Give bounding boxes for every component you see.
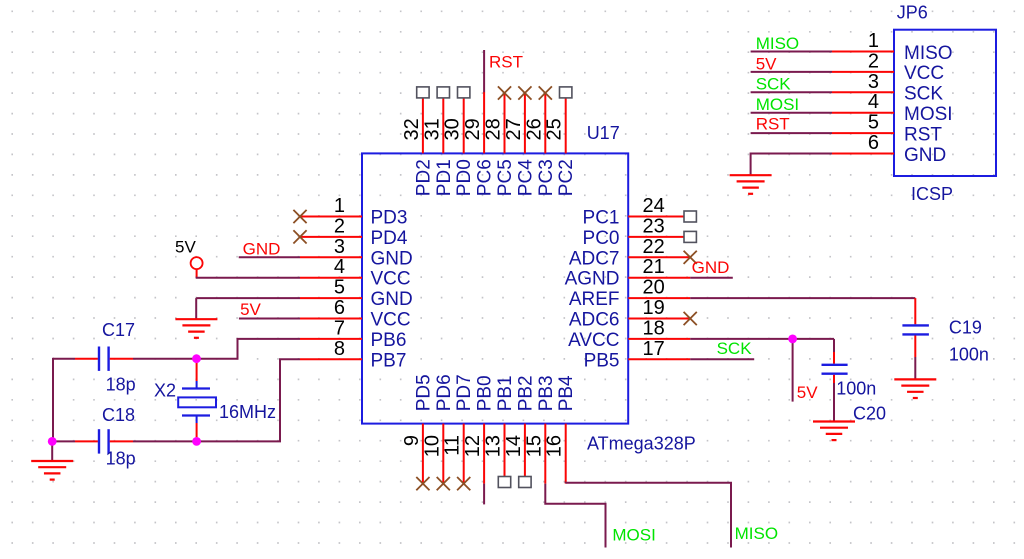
svg-text:PD1: PD1 [434, 159, 455, 196]
no-ERC X on pin 19 (ADC6) [684, 312, 697, 325]
no-ERC X on pin 11 (PD7) [457, 477, 470, 490]
svg-text:30: 30 [442, 118, 464, 140]
svg-text:100n: 100n [949, 345, 989, 365]
svg-text:32: 32 [401, 118, 423, 140]
pin 6 (VCC) left [300, 297, 411, 331]
svg-text:PD0: PD0 [454, 159, 475, 196]
svg-text:GND: GND [243, 240, 281, 259]
svg-text:RST: RST [756, 114, 790, 133]
svg-text:C19: C19 [949, 318, 982, 338]
svg-text:PD2: PD2 [413, 159, 434, 196]
svg-text:14: 14 [503, 435, 525, 457]
svg-text:9: 9 [401, 435, 423, 446]
wire: down to ground symbol [195, 298, 197, 319]
pin 28 (PC5) top [483, 92, 517, 196]
svg-text:5: 5 [868, 112, 879, 134]
svg-text:PD3: PD3 [371, 208, 408, 229]
pin 19 (ADC6) right [569, 297, 690, 331]
svg-text:25: 25 [544, 118, 566, 140]
svg-text:X2: X2 [154, 381, 176, 401]
svg-text:1: 1 [334, 195, 345, 217]
capacitor C19 [902, 325, 929, 379]
JP6 pin 5 (RST) [832, 112, 942, 146]
terminal square pin 30 (PD0) [458, 87, 470, 98]
IC U17 body (ATmega328P) [362, 153, 628, 423]
pin 23 (PC0) right [583, 215, 691, 249]
svg-text:GND: GND [371, 248, 413, 269]
svg-text:PB6: PB6 [371, 330, 407, 351]
wire: pin 5 (GND) to ground [196, 297, 300, 299]
wire: 5V stub down from junction [792, 339, 794, 402]
pin 8 (PB7) left [300, 338, 406, 372]
JP6 pin 4 (MOSI) [832, 91, 953, 125]
svg-text:PD5: PD5 [413, 374, 434, 411]
capacitor C18 [52, 429, 196, 453]
svg-text:15: 15 [523, 435, 545, 457]
svg-text:8: 8 [334, 338, 345, 360]
no-ERC X on pin 22 (ADC7) [684, 251, 697, 264]
pin 3 (GND) left [300, 236, 413, 269]
svg-text:10: 10 [421, 435, 443, 457]
svg-text:RST: RST [904, 124, 942, 145]
svg-text:MISO: MISO [735, 524, 778, 543]
no-ERC X on pin 2 (PD4) [293, 230, 306, 243]
svg-text:ADC6: ADC6 [569, 310, 620, 331]
svg-text:29: 29 [462, 118, 484, 140]
wire: GND stub at pin 21 (AGND) [690, 277, 733, 279]
terminal square pin 24 (PC1) [684, 211, 696, 222]
svg-text:PB4: PB4 [556, 375, 577, 411]
pin 29 (PC6) top [462, 92, 496, 196]
svg-text:PD4: PD4 [371, 228, 408, 249]
pin 17 (PB5) right [584, 338, 691, 372]
wire: stub down to left ground [51, 441, 53, 461]
svg-text:AREF: AREF [569, 289, 620, 310]
svg-text:PD7: PD7 [454, 374, 475, 411]
svg-text:PC0: PC0 [583, 228, 620, 249]
pin 27 (PC4) top [503, 92, 537, 196]
svg-text:17: 17 [643, 338, 665, 360]
pin 11 (PD7) bottom [442, 374, 476, 483]
no-ERC X on pin 1 (PD3) [293, 210, 306, 223]
svg-text:VCC: VCC [371, 269, 411, 290]
wire: AREF net pin 20 to C19 [690, 297, 915, 299]
svg-text:MOSI: MOSI [756, 95, 799, 114]
svg-text:ADC7: ADC7 [569, 248, 620, 269]
no-ERC X on pin 28 (PC5) [498, 86, 511, 99]
svg-text:C18: C18 [102, 405, 135, 425]
svg-text:PC6: PC6 [475, 159, 496, 196]
svg-text:3: 3 [334, 236, 345, 258]
svg-text:C17: C17 [102, 320, 135, 340]
pin 5 (GND) left [300, 277, 413, 311]
svg-text:VCC: VCC [904, 63, 944, 84]
pin 21 (AGND) right [565, 256, 691, 290]
svg-text:16: 16 [544, 435, 566, 457]
svg-text:31: 31 [421, 118, 443, 140]
pin 25 (PC2) top [544, 92, 578, 196]
svg-text:6: 6 [334, 297, 345, 319]
svg-text:18p: 18p [106, 375, 136, 395]
connector JP6 body [894, 30, 996, 176]
svg-text:MOSI: MOSI [904, 104, 953, 125]
wire: pin 7 (PB6) to crystal top node [196, 339, 301, 359]
JP6 pin 3 (SCK) [832, 71, 943, 105]
wire: MOSI net from pin 15 (PB3) [545, 484, 605, 548]
svg-text:4: 4 [334, 256, 345, 278]
wire: MOSI stub JP6 pin 4 [751, 112, 832, 114]
svg-text:PB3: PB3 [536, 375, 557, 411]
svg-text:23: 23 [643, 215, 665, 237]
svg-text:PC1: PC1 [583, 208, 620, 229]
svg-text:PB5: PB5 [584, 350, 620, 371]
svg-text:5V: 5V [175, 238, 196, 257]
svg-text:3: 3 [868, 71, 879, 93]
svg-text:MISO: MISO [904, 43, 953, 64]
capacitor C20 [822, 365, 848, 422]
ground symbol (JP6 GND) [730, 175, 772, 194]
svg-text:2: 2 [334, 215, 345, 237]
crystal X2 16MHz [178, 359, 216, 442]
svg-text:JP6: JP6 [897, 3, 928, 23]
wire: RST stub JP6 pin 5 [751, 132, 832, 134]
svg-text:PC3: PC3 [536, 159, 557, 196]
junction left ground node [48, 437, 57, 446]
svg-text:PB1: PB1 [495, 375, 516, 411]
svg-text:7: 7 [334, 317, 345, 339]
pin 32 (PD2) top [401, 92, 435, 196]
wire: RST net rising from pin 29 (PC6) [483, 50, 485, 92]
pin 20 (AREF) right [569, 277, 690, 311]
svg-text:5: 5 [334, 277, 345, 299]
svg-text:PD6: PD6 [434, 374, 455, 411]
pin 31 (PD1) top [421, 92, 455, 196]
junction AVCC/5V node [788, 335, 797, 344]
pin 7 (PB6) left [300, 317, 406, 351]
wire: 5V stub at pin 6 (VCC) [239, 318, 300, 320]
svg-text:19: 19 [643, 297, 665, 319]
pin 4 (VCC) left [300, 256, 411, 290]
svg-text:5V: 5V [797, 383, 818, 402]
junction XTAL2 node [192, 437, 201, 446]
wire: AREF drop to C19 (red lead) [914, 298, 916, 324]
wire: MISO stub JP6 pin 1 [751, 51, 832, 53]
wire: AVCC net pin 18 to C20/5V [690, 338, 834, 340]
JP6 pin 2 (VCC) [832, 50, 944, 84]
terminal square pin 23 (PC0) [684, 231, 696, 242]
no-ERC X on pin 26 (PC3) [539, 86, 552, 99]
svg-text:GND: GND [692, 258, 730, 277]
svg-text:GND: GND [371, 289, 413, 310]
pin 1 (PD3) left [300, 195, 407, 229]
svg-text:22: 22 [643, 236, 665, 258]
pin 10 (PD6) bottom [421, 374, 455, 483]
svg-text:SCK: SCK [904, 84, 943, 105]
svg-text:PC4: PC4 [515, 159, 536, 196]
svg-text:24: 24 [643, 195, 665, 217]
wire: 5V to pin 4 (VCC) [196, 277, 300, 279]
svg-text:20: 20 [643, 277, 665, 299]
no-ERC X on pin 10 (PD6) [437, 477, 450, 490]
wire: SCK stub at pin 17 (PB5) [690, 358, 754, 360]
wire: SCK stub JP6 pin 3 [751, 91, 832, 93]
ground symbol (C20) [813, 422, 855, 441]
svg-text:2: 2 [868, 50, 879, 72]
svg-text:21: 21 [643, 256, 665, 278]
svg-text:ATmega328P: ATmega328P [587, 434, 696, 454]
terminal square pin 25 (PC2) [560, 87, 572, 98]
pin 30 (PD0) top [442, 92, 476, 196]
svg-text:PC5: PC5 [495, 159, 516, 196]
pin 13 (PB1) bottom [483, 375, 517, 483]
svg-text:11: 11 [442, 435, 464, 456]
svg-text:SCK: SCK [756, 75, 792, 94]
wire: MISO net from pin 16 (PB4) [566, 483, 731, 548]
svg-text:16MHz: 16MHz [219, 402, 276, 422]
pin 2 (PD4) left [300, 215, 408, 249]
pin 22 (ADC7) right [569, 236, 690, 269]
power port 5V circle [191, 257, 203, 269]
svg-text:ICSP: ICSP [911, 184, 953, 204]
svg-text:27: 27 [503, 118, 525, 140]
no-ERC X on pin 27 (PC4) [518, 86, 531, 99]
wire: 5V stub JP6 pin 2 [751, 71, 832, 73]
terminal square pin 14 (PB2) [519, 477, 531, 488]
ground symbol (left, C18) [31, 461, 73, 480]
svg-text:VCC: VCC [371, 310, 411, 331]
pin 12 (PB0) bottom [462, 375, 496, 483]
junction XTAL1 node [192, 354, 201, 363]
svg-text:26: 26 [523, 118, 545, 140]
svg-text:AGND: AGND [565, 269, 620, 290]
svg-text:PB2: PB2 [515, 375, 536, 411]
svg-text:MISO: MISO [756, 34, 799, 53]
svg-text:6: 6 [868, 132, 879, 154]
svg-text:5V: 5V [756, 54, 777, 73]
wire: pin 8 (PB7) to crystal bottom node [198, 359, 301, 441]
terminal square pin 13 (PB1) [498, 477, 510, 488]
svg-text:C20: C20 [853, 404, 886, 424]
terminal square pin 31 (PD1) [437, 87, 449, 98]
pin 18 (AVCC) right [568, 317, 690, 351]
capacitor C17 [53, 347, 197, 371]
ground symbol (pin 5 GND) [175, 319, 217, 338]
svg-text:SCK: SCK [717, 339, 753, 358]
svg-text:13: 13 [483, 435, 505, 457]
pin 9 (PD5) bottom [401, 374, 435, 483]
svg-text:1: 1 [868, 30, 879, 52]
svg-text:18p: 18p [106, 449, 136, 469]
pin 15 (PB3) bottom [523, 375, 557, 483]
wire: GND from JP6 pin 6 to ground [751, 154, 832, 176]
wire: GND stub at pin 3 [239, 256, 300, 258]
ground symbol (C19) [894, 379, 936, 398]
svg-text:12: 12 [462, 435, 484, 457]
svg-text:RST: RST [489, 53, 523, 72]
svg-text:GND: GND [904, 145, 946, 166]
pin 24 (PC1) right [583, 195, 691, 229]
no-ERC X on pin 9 (PD5) [416, 477, 429, 490]
svg-text:18: 18 [643, 317, 665, 339]
svg-text:PB0: PB0 [475, 375, 496, 411]
wire: 5V stem to pin 4 row [196, 269, 198, 278]
svg-text:28: 28 [483, 118, 505, 140]
pin 26 (PC3) top [523, 92, 557, 196]
svg-text:5V: 5V [240, 300, 261, 319]
svg-text:U17: U17 [587, 123, 620, 143]
pin 14 (PB2) bottom [503, 375, 537, 483]
wire: drop to C20 [833, 339, 835, 352]
svg-text:MOSI: MOSI [612, 526, 655, 545]
JP6 pin 6 (GND) [832, 132, 946, 166]
svg-text:100n: 100n [836, 379, 876, 399]
pin 16 (PB4) bottom [544, 375, 578, 484]
terminal square pin 32 (PD2) [417, 87, 429, 98]
JP6 pin 1 (MISO) [832, 30, 953, 64]
svg-text:AVCC: AVCC [568, 330, 619, 351]
svg-text:PC2: PC2 [556, 159, 577, 196]
svg-text:4: 4 [868, 91, 879, 113]
wire: left vertical joining C17/C18 [52, 358, 54, 442]
svg-text:PB7: PB7 [371, 350, 407, 371]
wire: dangling stub at pin 12 (PB0) [483, 484, 485, 505]
